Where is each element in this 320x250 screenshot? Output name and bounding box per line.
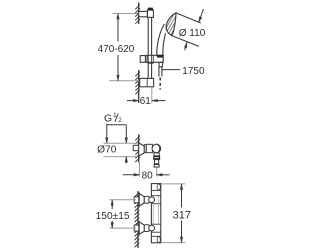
svg-text:80: 80 <box>142 171 154 182</box>
svg-text:317: 317 <box>173 210 191 222</box>
svg-text:150±15: 150±15 <box>96 211 130 222</box>
svg-text:Ø 110: Ø 110 <box>179 28 206 39</box>
svg-text:61: 61 <box>140 96 152 107</box>
svg-text:1750: 1750 <box>182 66 205 77</box>
svg-text:G: G <box>104 114 112 125</box>
svg-text:470-620: 470-620 <box>98 44 135 55</box>
svg-text:Ø70: Ø70 <box>97 145 117 156</box>
svg-text:2: 2 <box>118 117 122 124</box>
